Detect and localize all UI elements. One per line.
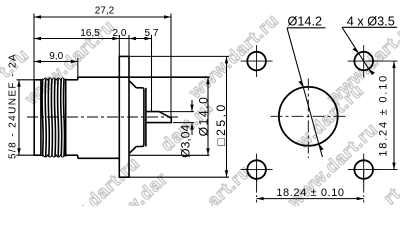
chamfer bottom	[129, 147, 136, 154]
watermark fragment left edge	[0, 44, 33, 81]
front view big circle Ø14.2	[279, 87, 338, 146]
boss top edge	[136, 88, 144, 147]
svg-text:5/8 - 24UNEF - 2A: 5/8 - 24UNEF - 2A	[8, 53, 19, 159]
Ø14 bottom extension	[129, 154, 210, 156]
watermark I bottom right	[284, 119, 382, 212]
coupling nut front cap	[34, 80, 41, 155]
mounting hole bottom-right	[348, 154, 380, 186]
watermark D middle	[157, 97, 217, 155]
svg-text:Ø3,04: Ø3,04	[179, 124, 193, 157]
front view vertical centerline	[307, 79, 309, 159]
watermark B top middle	[185, 10, 283, 103]
pin top extension	[160, 111, 194, 113]
flange top extension line	[129, 55, 229, 57]
mounting hole top-left	[241, 45, 273, 77]
watermark H bottom middle	[203, 161, 255, 211]
svg-text:9,0: 9,0	[49, 51, 63, 62]
step to mid body top	[77, 77, 79, 80]
dimension 9,0	[34, 51, 78, 77]
thread end line	[65, 79, 67, 157]
boss right face	[145, 88, 147, 147]
dimension Ø3,04	[179, 100, 194, 158]
svg-text:2,0: 2,0	[113, 28, 127, 39]
svg-text:27,2: 27,2	[95, 6, 115, 17]
mounting hole top-right	[348, 45, 380, 77]
dimension 27,2	[34, 6, 171, 118]
watermark corner fragment	[380, 184, 400, 209]
watermark G bottom middle-left	[120, 168, 172, 218]
dimension □25,0	[214, 56, 228, 177]
thread crest bumps bottom	[43, 155, 64, 157]
svg-text:16,5: 16,5	[80, 28, 100, 39]
nut smooth section bottom	[66, 154, 78, 156]
flange plate	[119, 56, 129, 177]
svg-text:Ø14,0: Ø14,0	[197, 96, 211, 137]
svg-text:Ø14.2: Ø14.2	[288, 14, 323, 28]
center pin	[146, 112, 171, 123]
mounting hole bottom-left	[241, 154, 273, 186]
mid body top edge + Ø14 top extension	[78, 76, 210, 78]
label 4 x Ø3.5 with leader	[342, 14, 397, 75]
flange bottom extension line	[129, 176, 229, 178]
mid body bottom edge	[78, 157, 120, 159]
thread spec dimension 5/8 - 24UNEF - 2A	[8, 53, 34, 159]
chamfer top	[129, 81, 136, 88]
watermark F bottom left	[46, 153, 144, 240]
svg-text:18.24 ± 0.10: 18.24 ± 0.10	[276, 187, 344, 199]
watermark A upper left	[21, 16, 119, 109]
svg-text:5,7: 5,7	[145, 28, 159, 39]
centerline of side view	[27, 116, 180, 118]
front view horizontal centerline	[271, 115, 347, 117]
svg-text:4 x Ø3.5: 4 x Ø3.5	[347, 14, 395, 28]
thread crest bumps top	[43, 78, 64, 80]
dimension 16,5 / 2,0 / 5,7	[34, 28, 159, 112]
thread section 5/8-24UNEF	[42, 79, 64, 157]
svg-text:□25,0: □25,0	[214, 102, 228, 146]
nut smooth section top	[66, 79, 78, 81]
label Ø14.2 with leader	[287, 14, 326, 157]
watermark C top right	[323, 16, 400, 109]
dimension Ø14,0	[197, 77, 211, 155]
dimension 18.24 right	[374, 61, 398, 170]
watermark E in circle	[292, 80, 368, 153]
dimension 18.24 bottom	[257, 170, 364, 203]
pin bottom extension	[173, 122, 194, 124]
step to mid body bottom	[77, 155, 79, 158]
svg-text:18.24 ± 0.10: 18.24 ± 0.10	[378, 74, 390, 157]
